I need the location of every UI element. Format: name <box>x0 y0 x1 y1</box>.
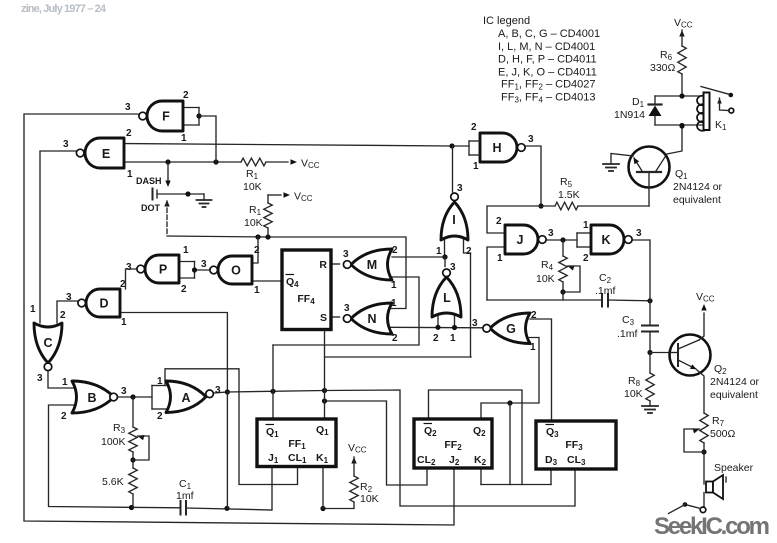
svg-text:2: 2 <box>126 128 132 139</box>
resistor R8 to ground <box>649 353 651 374</box>
ground (key) <box>203 194 205 200</box>
svg-text:2: 2 <box>496 216 502 227</box>
flip-flop FF1 <box>257 419 336 467</box>
svg-text:1N914: 1N914 <box>614 109 645 121</box>
svg-text:3: 3 <box>450 262 456 273</box>
svg-text:2: 2 <box>60 310 66 321</box>
wire A input1 hook down to FF1 CL1 <box>165 369 298 485</box>
svg-text:3: 3 <box>548 228 554 239</box>
wire F input tie bracket down to E input1 line <box>183 107 199 109</box>
wire speaker to output jack/switch <box>703 493 705 507</box>
svg-text:3: 3 <box>126 262 132 273</box>
transistor Q1 <box>629 147 670 188</box>
svg-text:1: 1 <box>62 377 68 388</box>
svg-text:2: 2 <box>254 245 260 256</box>
svg-text:3: 3 <box>215 385 221 396</box>
wire FF1 K1 down to R2 node <box>322 467 324 509</box>
wire A output node: right to FF tops, down to bottom rail <box>214 392 228 393</box>
wire E input1 line to R1 <box>124 161 241 163</box>
svg-text:S: S <box>320 312 327 324</box>
gate J (NAND) <box>505 225 538 254</box>
svg-text:1: 1 <box>497 253 503 264</box>
svg-text:3: 3 <box>37 373 43 384</box>
gate A (NOR) <box>166 381 206 413</box>
wire R7 to speaker <box>703 452 705 484</box>
capacitor C2 <box>601 294 603 307</box>
gate O (NAND, mirrored) <box>218 256 252 284</box>
wire D output to C input2 <box>57 301 78 323</box>
relay K1 coil <box>697 96 708 106</box>
gate B (NOR) <box>72 381 114 413</box>
svg-text:F: F <box>162 110 170 124</box>
wire long E input2 line to H input node <box>124 144 469 147</box>
IC legend text block <box>483 15 600 105</box>
ground (Q1) <box>603 163 619 165</box>
svg-text:.1mf: .1mf <box>595 285 616 297</box>
resistor R4 with wiper loop <box>562 240 564 256</box>
svg-text:2: 2 <box>471 122 477 133</box>
key lever to ground <box>157 193 204 195</box>
svg-text:1mf: 1mf <box>176 490 194 502</box>
gate I (NOR, pointing up) <box>441 202 468 240</box>
svg-text:Speaker: Speaker <box>714 462 754 474</box>
svg-text:DOT: DOT <box>141 203 161 213</box>
svg-text:1: 1 <box>121 317 127 328</box>
wire FF4 bottom down to FF1 Q1 (vertical x=324.5) <box>324 330 326 420</box>
gate F (NAND, mirrored) <box>147 101 183 131</box>
svg-text:2: 2 <box>583 253 589 264</box>
H input tie bracket <box>469 140 480 142</box>
svg-text:O: O <box>231 264 241 278</box>
resistor R6 <box>678 46 686 74</box>
svg-text:3: 3 <box>457 183 463 194</box>
wire P output to D input2 <box>126 269 138 289</box>
svg-text:100K: 100K <box>101 436 126 448</box>
svg-text:2: 2 <box>392 245 398 256</box>
resistor R7 with wiper loop <box>700 413 708 443</box>
svg-text:zine, July 1977 – 24: zine, July 1977 – 24 <box>21 3 107 15</box>
wire O input2 up to clock line <box>252 237 258 263</box>
svg-text:B: B <box>87 391 96 405</box>
svg-text:1: 1 <box>30 304 36 315</box>
svg-text:3: 3 <box>63 139 69 150</box>
svg-text:10K: 10K <box>243 181 262 193</box>
svg-text:1: 1 <box>157 376 163 387</box>
svg-text:1: 1 <box>583 220 589 231</box>
wire node down to K2/D3 rail <box>509 403 511 485</box>
svg-text:2: 2 <box>120 279 126 290</box>
svg-text:1: 1 <box>254 285 260 296</box>
Q1 base lead <box>648 172 650 206</box>
wire C3 node to Q2 base <box>650 352 671 354</box>
svg-text:330Ω: 330Ω <box>650 62 676 74</box>
svg-text:2: 2 <box>61 411 67 422</box>
flip-flop FF3 <box>536 421 616 469</box>
svg-text:5.6K: 5.6K <box>102 476 124 488</box>
gate N (NOR, mirrored) <box>351 303 392 334</box>
gate C (NOR, pointing down) <box>34 323 62 363</box>
wire K output down to C3 node <box>633 240 650 301</box>
resistor R5 <box>555 202 578 210</box>
wire H-node down to gate I output <box>452 146 454 192</box>
svg-text:10K: 10K <box>536 273 555 285</box>
wire G pin2 to FF3 Q3bar <box>530 319 552 421</box>
svg-text:3: 3 <box>528 134 534 145</box>
svg-text:2: 2 <box>157 411 163 422</box>
wire J pin1 down to C2 line <box>487 247 505 300</box>
wire FF4 S to gate N <box>331 316 340 318</box>
svg-text:1: 1 <box>181 133 187 144</box>
svg-text:2: 2 <box>531 310 537 321</box>
svg-text:1: 1 <box>473 161 479 172</box>
svg-text:.1mf: .1mf <box>617 328 638 340</box>
DOT contact arrow up <box>164 200 169 207</box>
telegraph key: DASH contact arrow <box>167 162 169 180</box>
P input tie bracket <box>179 261 195 263</box>
svg-text:A: A <box>181 391 190 405</box>
svg-text:3: 3 <box>125 102 131 113</box>
svg-text:1: 1 <box>127 169 133 180</box>
wire K2/D3 rail <box>481 484 551 486</box>
svg-text:3: 3 <box>121 386 127 397</box>
svg-text:equivalent: equivalent <box>710 389 758 401</box>
svg-text:R: R <box>319 259 327 271</box>
svg-text:1.5K: 1.5K <box>558 189 580 201</box>
svg-text:equivalent: equivalent <box>673 194 721 206</box>
svg-text:M: M <box>367 258 377 272</box>
svg-text:H: H <box>492 141 501 155</box>
svg-text:1: 1 <box>391 280 397 291</box>
wire relay coil top/bottom with D1 <box>655 95 704 97</box>
resistor R1 (horizontal) <box>241 158 266 166</box>
Q1 collector line inside <box>656 157 665 171</box>
svg-text:10K: 10K <box>244 217 263 229</box>
svg-text:D: D <box>99 297 108 311</box>
wire Q1bar drop from y345 line to FF1 <box>272 345 274 419</box>
svg-text:3: 3 <box>343 249 349 260</box>
resistor R3 with wiper loop <box>132 397 134 427</box>
wire N pin2 / L inputs / G output line <box>391 326 484 329</box>
speaker <box>706 482 713 493</box>
svg-text:2: 2 <box>392 333 398 344</box>
A input tie bracket <box>152 385 166 387</box>
wire I pin2 leg down to y357 rail <box>464 236 471 357</box>
svg-text:E, J, K, O – CD4011: E, J, K, O – CD4011 <box>498 66 597 78</box>
svg-text:1: 1 <box>530 342 536 353</box>
capacitor C3 <box>649 301 651 326</box>
Q2 collector to Vcc <box>678 340 699 349</box>
svg-text:SeekIC.com: SeekIC.com <box>654 513 770 540</box>
gate P (NAND, mirrored) <box>145 255 179 283</box>
svg-text:DASH: DASH <box>136 176 162 186</box>
wire I pin1 leg down to M/L node <box>444 236 446 257</box>
svg-text:I, L, M, N – CD4001: I, L, M, N – CD4001 <box>498 41 595 53</box>
gate M (NOR, mirrored) <box>351 249 392 280</box>
svg-text:3: 3 <box>636 228 642 239</box>
wire B output to A input bracket <box>118 396 153 398</box>
svg-text:3: 3 <box>344 303 350 314</box>
gate E (NAND, mirrored) <box>85 138 124 168</box>
capacitor C1 <box>180 501 182 515</box>
wire E output to gate C input 1 <box>40 151 76 323</box>
Q2 emitter to R7 <box>678 360 696 369</box>
wire FF4 R to gate M <box>331 263 340 265</box>
gate K (NAND) <box>591 225 624 254</box>
svg-text:I: I <box>452 213 455 227</box>
svg-text:2: 2 <box>466 246 472 257</box>
wire B input2 to bottom rail <box>49 405 181 508</box>
gate D (NAND, mirrored) <box>86 289 120 317</box>
Q1 emitter to ground <box>634 158 642 171</box>
gate G (NOR, mirrored) <box>490 313 530 344</box>
svg-text:J: J <box>517 233 524 247</box>
wire clock line: key to R1b node to gate N pin1 <box>167 236 406 309</box>
svg-text:D, H, F, P – CD4011: D, H, F, P – CD4011 <box>498 54 597 66</box>
svg-text:N: N <box>367 312 376 326</box>
wire FF1 Q1 node across to FF2 CL2 <box>325 401 428 485</box>
ground (R8) <box>642 405 658 407</box>
svg-text:3: 3 <box>201 259 207 270</box>
gate L (NOR, pointing up) <box>432 277 461 317</box>
svg-text:3: 3 <box>66 292 72 303</box>
relay switch arm and contacts <box>701 87 730 95</box>
wire C output to B input1 <box>48 370 74 388</box>
wire FF4 bottom rail (y357) to I pin2 drop <box>325 356 472 358</box>
wire C2 line <box>487 299 602 301</box>
svg-text:L: L <box>443 291 451 305</box>
wire M input2 / L output node <box>392 256 445 258</box>
wire H output down to R5 line <box>525 146 541 206</box>
K input tie bracket <box>577 232 591 234</box>
switch lever <box>685 505 701 509</box>
gate H (NAND) <box>480 133 517 162</box>
wire DOT contact down to clock line (dashed-ish) <box>166 201 168 236</box>
svg-text:P: P <box>159 263 167 277</box>
flip-flop FF2 <box>414 419 492 468</box>
svg-text:2N4124 or: 2N4124 or <box>710 376 760 388</box>
svg-text:1: 1 <box>391 298 397 309</box>
wire R5 to Q1 base <box>578 205 649 207</box>
flip-flop FF4 <box>282 250 331 330</box>
svg-text:K: K <box>601 233 610 247</box>
wire Q1 collector up to relay <box>662 126 682 155</box>
wire R5 line left end down to J pin2 <box>487 206 555 233</box>
wire G pin1 to FF2 Q2 <box>481 338 539 420</box>
wire FF2 Q2bar up and over to rail <box>429 390 523 485</box>
transistor Q2 <box>670 335 711 376</box>
resistor 5.6K <box>132 460 134 468</box>
svg-text:C: C <box>43 336 52 350</box>
svg-text:10K: 10K <box>624 388 643 400</box>
telegraph key contacts <box>152 189 154 200</box>
svg-text:1: 1 <box>450 333 456 344</box>
svg-text:2: 2 <box>433 333 439 344</box>
svg-text:10K: 10K <box>360 493 379 505</box>
wire O output to P input tie <box>195 269 210 271</box>
wire J output to K input tie, R4 tap <box>546 239 577 241</box>
svg-text:E: E <box>102 147 110 161</box>
svg-text:3: 3 <box>472 318 478 329</box>
svg-text:500Ω: 500Ω <box>710 428 736 440</box>
wire L input legs to G line <box>437 313 439 327</box>
svg-text:1: 1 <box>436 246 442 257</box>
svg-text:2: 2 <box>181 284 187 295</box>
wire feedback loop: F output to left border, bottom border, up to FF2 J2 <box>24 114 454 525</box>
svg-text:G: G <box>506 322 516 336</box>
svg-text:2N4124 or: 2N4124 or <box>673 181 723 193</box>
resistor R1 (second, vertical) <box>268 194 281 196</box>
wire M input1 to FF1 Q1bar (y345 line) <box>273 277 419 345</box>
svg-text:IC legend: IC legend <box>483 15 530 27</box>
svg-text:A, B, C, G – CD4001: A, B, C, G – CD4001 <box>498 28 600 40</box>
wire bottom rail right of C1, up to FF1 J1 <box>186 467 272 511</box>
wire D input1 down to A output node <box>120 313 227 393</box>
diode D1 1N914 <box>654 96 656 105</box>
svg-text:1: 1 <box>183 245 189 256</box>
svg-text:2: 2 <box>183 90 189 101</box>
wire O input1 to FF4 Q4bar <box>252 280 282 282</box>
